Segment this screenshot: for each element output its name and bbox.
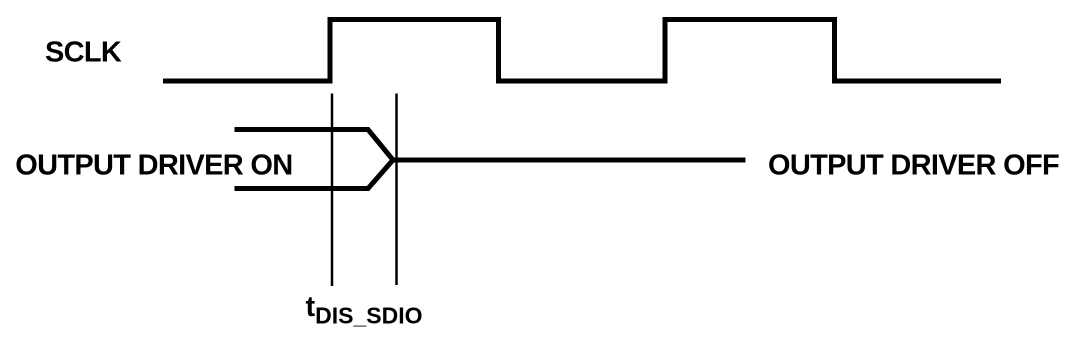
svg-text:OUTPUT DRIVER ON: OUTPUT DRIVER ON — [15, 149, 292, 181]
wire SDIO high-impedance line — [393, 158, 746, 163]
svg-text:OUTPUT DRIVER OFF: OUTPUT DRIVER OFF — [768, 150, 1059, 182]
wire SDIO bus lower line — [235, 160, 394, 189]
node cursor line 1 (left timing marker) — [331, 94, 334, 287]
svg-text:SCLK: SCLK — [45, 37, 122, 69]
wire SDIO bus upper line — [235, 130, 394, 161]
wire SCLK clock waveform — [163, 20, 1001, 82]
node cursor line 2 (right timing marker) — [395, 94, 398, 286]
